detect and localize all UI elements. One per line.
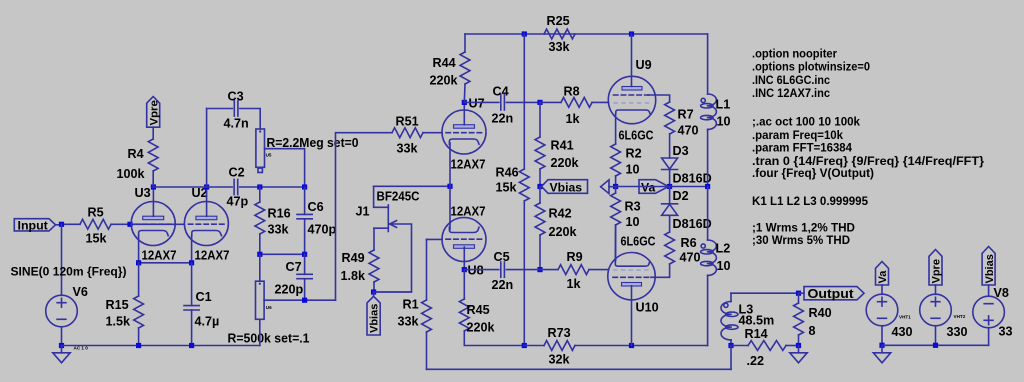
- svg-text:;.ac oct 100 10 100k: ;.ac oct 100 10 100k: [752, 115, 860, 129]
- svg-text:.INC 12AX7.inc: .INC 12AX7.inc: [752, 86, 830, 100]
- spice directives text: [752, 47, 984, 248]
- svg-text:R44: R44: [433, 56, 456, 70]
- junction output: [796, 291, 801, 296]
- wire input row: [62, 223, 81, 225]
- svg-text:R73: R73: [548, 326, 571, 340]
- resistor R40: [794, 293, 804, 345]
- label pot2 us: [266, 305, 272, 310]
- capacitor C5: [464, 262, 540, 277]
- resistor R14: [731, 341, 799, 351]
- svg-text:R3: R3: [625, 200, 641, 214]
- label R14 value: [747, 354, 765, 368]
- junction U3 plate: [151, 184, 156, 189]
- label U7 type: [451, 158, 486, 172]
- svg-text:12AX7: 12AX7: [142, 249, 177, 263]
- svg-text:Va: Va: [877, 270, 889, 284]
- svg-text:R9: R9: [567, 250, 583, 264]
- wire Vpre bottom: [935, 326, 937, 346]
- svg-text:.option noopiter: .option noopiter: [752, 47, 837, 61]
- junction L3 bottom: [728, 343, 733, 348]
- svg-text:R49: R49: [342, 251, 365, 265]
- wire row 186 right: [616, 186, 708, 188]
- svg-text:.22: .22: [747, 354, 765, 368]
- wire R5 to grids: [111, 223, 184, 225]
- resistor R8: [540, 98, 609, 108]
- svg-text:.four {Freq} V(Output): .four {Freq} V(Output): [752, 166, 874, 180]
- label R3 value: [626, 215, 640, 229]
- svg-text:U3: U3: [135, 186, 151, 200]
- junction Va node: [667, 184, 672, 189]
- supply flag Va: [876, 262, 890, 295]
- label Va value: [892, 325, 913, 339]
- label J1 model BF245C: [377, 190, 420, 204]
- wire cathodes row: [139, 262, 192, 264]
- wire U8 grid lead: [427, 238, 443, 240]
- label V8 value: [999, 325, 1013, 339]
- wire U2 plate lead: [206, 187, 208, 216]
- resistor R3: [611, 187, 621, 261]
- svg-text:C7: C7: [286, 260, 302, 274]
- wire supplies rail: [882, 344, 989, 346]
- label C4: [493, 85, 509, 99]
- wire L3 gnd drop: [730, 346, 732, 370]
- svg-text:220p: 220p: [275, 283, 304, 297]
- resistor R4: [148, 139, 158, 187]
- svg-text:.options plotwinsize=0: .options plotwinsize=0: [752, 60, 870, 74]
- label pot1 us: [266, 153, 272, 158]
- wire U9 plate lead: [631, 34, 633, 86]
- resistor R2: [611, 144, 621, 187]
- label R2: [626, 147, 642, 161]
- label pot2 value: [228, 332, 310, 346]
- wire pot2 wiper row: [264, 299, 335, 301]
- svg-text:15k: 15k: [86, 232, 108, 246]
- svg-text:;30 Wrms 5% THD: ;30 Wrms 5% THD: [752, 233, 850, 247]
- pentode U10 (flipped): [608, 253, 655, 300]
- svg-text:R8: R8: [564, 85, 580, 99]
- junction U9 top: [629, 31, 634, 36]
- label R7: [678, 108, 694, 122]
- label R9: [567, 250, 583, 264]
- svg-text:L2: L2: [716, 242, 731, 256]
- label R16: [268, 207, 291, 221]
- label R14: [745, 327, 768, 341]
- label U9: [636, 58, 652, 72]
- svg-text:Vpre: Vpre: [931, 259, 943, 283]
- svg-text:U7: U7: [469, 97, 485, 111]
- junction input: [59, 222, 64, 227]
- resistor R42: [535, 187, 545, 270]
- label R3: [625, 200, 641, 214]
- svg-text:D2: D2: [673, 189, 689, 203]
- label L3 value: [739, 314, 775, 328]
- label C6: [308, 200, 324, 214]
- net flag Output: [799, 286, 865, 301]
- svg-text:220k: 220k: [430, 74, 459, 88]
- svg-text:R45: R45: [467, 303, 490, 317]
- svg-text:C3: C3: [228, 90, 244, 104]
- wire Va bottom: [881, 326, 883, 346]
- label R42 value: [549, 225, 578, 239]
- svg-text:1k: 1k: [566, 112, 581, 126]
- ground at V6: [53, 346, 70, 363]
- label R49: [342, 251, 365, 265]
- junction U8 plate: [462, 267, 467, 272]
- svg-text:R40: R40: [809, 306, 832, 320]
- junction Vbias mid: [537, 184, 542, 189]
- net flag blank at R2R3: [601, 180, 616, 194]
- voltage source V6: [46, 295, 78, 327]
- svg-text:470: 470: [678, 124, 699, 138]
- label R49 value: [341, 269, 367, 283]
- junction Va gnd: [879, 343, 884, 348]
- svg-text:12AX7: 12AX7: [451, 158, 486, 172]
- svg-text:6L6GC: 6L6GC: [621, 235, 656, 249]
- wire V8 bottom: [988, 328, 990, 346]
- svg-text:Vbias: Vbias: [369, 304, 381, 333]
- label R4: [128, 147, 144, 161]
- svg-text:D816D: D816D: [673, 172, 712, 186]
- label R40 value: [809, 324, 816, 338]
- label R41 value: [551, 156, 580, 170]
- capacitor C4: [464, 95, 540, 110]
- label L1 value: [717, 115, 731, 129]
- svg-text:K1 L1 L2 L3 0.999995: K1 L1 L2 L3 0.999995: [752, 194, 868, 208]
- junction pot1 wiper: [302, 184, 307, 189]
- junction R42 bottom: [537, 267, 542, 272]
- label R45 value: [467, 321, 496, 335]
- svg-text:D816D: D816D: [673, 217, 712, 231]
- wire pot2 bottom: [259, 319, 261, 345]
- label VHT2: [954, 314, 966, 319]
- resistor R1: [422, 239, 432, 369]
- label V6 ac: [74, 346, 89, 351]
- voltage source VHT2 Vpre: [920, 294, 952, 326]
- inductor L2: [701, 187, 717, 346]
- junction R15 bottom: [136, 343, 141, 348]
- wire J1 drain row: [374, 185, 450, 187]
- wire row 254: [260, 253, 305, 255]
- svg-text:1.5k: 1.5k: [106, 315, 132, 329]
- label R8 value: [566, 112, 581, 126]
- svg-text:R15: R15: [106, 298, 129, 312]
- capacitor C2: [234, 179, 238, 194]
- svg-text:D3: D3: [673, 144, 689, 158]
- junction C6 bottom: [302, 252, 307, 257]
- svg-text:Input: Input: [18, 219, 48, 233]
- wire U7 plate lead: [463, 102, 465, 124]
- label R16 value: [268, 223, 290, 237]
- label R41: [551, 139, 574, 153]
- potentiometer U6 500k: [256, 281, 265, 319]
- label pot1 value: [267, 136, 359, 150]
- jfet J1 BF245C wiring: [374, 186, 412, 292]
- resistor R16: [255, 187, 265, 254]
- junction V6 gnd: [59, 343, 64, 348]
- junction R46 top: [522, 31, 527, 36]
- svg-text:SINE(0 120m {Freq}): SINE(0 120m {Freq}): [11, 265, 127, 279]
- inductor L1: [701, 34, 717, 187]
- wire D3 bottom: [669, 170, 671, 187]
- wire output row: [731, 292, 799, 294]
- resistor R49: [369, 250, 379, 292]
- wire U3 plate lead: [152, 187, 154, 216]
- wire V6 top: [61, 224, 63, 295]
- junction R2 R3: [613, 184, 618, 189]
- svg-text:VHT1: VHT1: [899, 315, 911, 320]
- capacitor C6: [297, 187, 312, 254]
- voltage source VHT1 Va: [866, 294, 898, 326]
- svg-text:33: 33: [999, 325, 1013, 339]
- svg-text:15k: 15k: [496, 181, 518, 195]
- svg-text:6L6GC: 6L6GC: [619, 129, 654, 143]
- pentode U9: [608, 76, 655, 123]
- svg-text:U10: U10: [636, 301, 659, 315]
- voltage source V8 (flipped): [973, 296, 1005, 328]
- svg-text:VHT2: VHT2: [954, 314, 966, 319]
- label L1: [716, 98, 731, 112]
- net flag Vbias at R49: [367, 292, 381, 335]
- resistor R25: [544, 29, 575, 39]
- label D2 model: [673, 217, 712, 231]
- label C4 value: [492, 112, 514, 126]
- wire U9 screen tap: [648, 95, 670, 102]
- wire feedback riser: [336, 133, 393, 301]
- label C1: [196, 290, 212, 304]
- resistor R51: [392, 128, 442, 138]
- svg-text:Va: Va: [641, 181, 655, 195]
- junction U2 cathode: [189, 260, 194, 265]
- svg-text:Vpre: Vpre: [148, 100, 160, 125]
- svg-text:48.5m: 48.5m: [739, 314, 775, 328]
- net flag Vpre at R4: [147, 97, 161, 140]
- svg-text:Output: Output: [808, 286, 855, 301]
- ground at Va: [873, 345, 890, 363]
- svg-text:R4: R4: [128, 147, 144, 161]
- resistor R15: [134, 263, 144, 346]
- junction R16 top: [257, 184, 262, 189]
- label C7 value: [275, 283, 304, 297]
- wire C3 riser: [207, 109, 233, 188]
- svg-text:220k: 220k: [549, 225, 578, 239]
- net flag Va: [639, 180, 669, 195]
- label J1: [356, 205, 370, 219]
- svg-text:4.7µ: 4.7µ: [195, 315, 220, 329]
- label R25 value: [549, 40, 571, 54]
- label R73 value: [549, 353, 571, 367]
- svg-text:C2: C2: [229, 166, 245, 180]
- label C3: [228, 90, 244, 104]
- wire plate row: [153, 186, 304, 188]
- svg-text:100k: 100k: [117, 167, 146, 181]
- wire U2 cathode lead: [191, 236, 193, 263]
- junction Vpre gnd: [933, 343, 938, 348]
- junction L1 L2: [705, 184, 710, 189]
- label R2 value: [626, 163, 640, 177]
- svg-text:33k: 33k: [549, 40, 571, 54]
- potentiometer U5 2.2Meg: [256, 129, 265, 173]
- label R45: [467, 303, 490, 317]
- ground at R40: [790, 346, 807, 363]
- junction U3 cathode: [136, 260, 141, 265]
- resistor R45: [459, 270, 524, 346]
- wire U10 cathode lead: [614, 225, 616, 263]
- svg-text:R14: R14: [745, 327, 768, 341]
- svg-text:8: 8: [809, 324, 816, 338]
- supply flag Vbias: [982, 247, 996, 297]
- capacitor C3: [234, 101, 238, 116]
- svg-text:Vbias: Vbias: [984, 254, 996, 283]
- label R8: [564, 85, 580, 99]
- label R5: [88, 206, 104, 220]
- resistor R46: [519, 34, 529, 346]
- label U2: [192, 186, 208, 200]
- junction R41 top: [537, 100, 542, 105]
- diode D3: [662, 158, 678, 170]
- wire ground rail left: [62, 345, 260, 347]
- junction U3 grid: [127, 222, 132, 227]
- svg-text:32k: 32k: [549, 353, 571, 367]
- junction C7 bottom: [302, 298, 307, 303]
- phase dot L3: [724, 303, 728, 307]
- svg-text:Vbias: Vbias: [550, 181, 583, 195]
- wire bottom rail: [427, 368, 732, 370]
- wire U9 cathode lead: [615, 114, 617, 145]
- svg-text:10: 10: [626, 215, 640, 229]
- junction R40 bottom: [796, 343, 801, 348]
- label L2 value: [717, 259, 731, 273]
- svg-text:R2: R2: [626, 147, 642, 161]
- resistor R5: [80, 219, 111, 229]
- resistor R44: [460, 34, 470, 102]
- triode U8 (flipped): [442, 218, 486, 262]
- label U3: [135, 186, 151, 200]
- label U3 type: [142, 249, 177, 263]
- supply flag Vpre: [929, 250, 943, 295]
- svg-text:4.7n: 4.7n: [224, 117, 249, 131]
- svg-text:10: 10: [717, 115, 731, 129]
- triode U7: [442, 110, 486, 154]
- label L3: [739, 303, 754, 317]
- svg-text:.INC 6L6GC.inc: .INC 6L6GC.inc: [752, 73, 830, 87]
- svg-text:12AX7: 12AX7: [195, 249, 230, 263]
- label R15: [106, 298, 129, 312]
- svg-text:U6: U6: [266, 305, 272, 310]
- svg-text:1k: 1k: [567, 277, 582, 291]
- label R40: [809, 306, 832, 320]
- phase dot L2: [701, 244, 705, 248]
- label R1: [403, 298, 419, 312]
- svg-text:470: 470: [680, 251, 701, 265]
- resistor R6: [651, 215, 675, 277]
- label C3 value: [224, 117, 249, 131]
- svg-text:R16: R16: [268, 207, 291, 221]
- label R7 value: [678, 124, 699, 138]
- svg-text:R41: R41: [551, 139, 574, 153]
- label R46 value: [496, 181, 518, 195]
- svg-text:BF245C: BF245C: [377, 190, 420, 204]
- capacitor C7: [297, 254, 312, 300]
- svg-text:430: 430: [892, 325, 913, 339]
- label R73: [548, 326, 571, 340]
- resistor R9: [540, 265, 609, 275]
- wire U7 cathode lead: [449, 143, 451, 186]
- junction tail: [447, 184, 452, 189]
- label C2: [229, 166, 245, 180]
- svg-text:R25: R25: [547, 14, 570, 28]
- svg-text:J1: J1: [356, 205, 370, 219]
- svg-text:U8: U8: [468, 264, 484, 278]
- label R51: [396, 115, 419, 129]
- label U9 type: [619, 129, 654, 143]
- junction R49 bottom: [371, 289, 376, 294]
- svg-text:220k: 220k: [551, 156, 580, 170]
- svg-text:33k: 33k: [398, 315, 420, 329]
- svg-text:22n: 22n: [492, 278, 514, 292]
- svg-text:C4: C4: [493, 85, 509, 99]
- resistor R73: [524, 341, 707, 351]
- wire V6 bottom: [61, 327, 63, 346]
- junction U7 plate: [462, 100, 467, 105]
- svg-text:22n: 22n: [492, 112, 514, 126]
- svg-text:R=500k set=.1: R=500k set=.1: [228, 332, 310, 346]
- label R44: [433, 56, 456, 70]
- triode U3: [131, 202, 175, 246]
- wire top row: [465, 33, 708, 35]
- label R6: [681, 236, 697, 250]
- label D3 model: [673, 172, 712, 186]
- svg-text:C6: C6: [308, 200, 324, 214]
- svg-text:R5: R5: [88, 206, 104, 220]
- resistor R41: [535, 102, 545, 186]
- svg-text:33k: 33k: [268, 223, 290, 237]
- wire U8 cathode lead: [449, 186, 451, 229]
- wire pot1 wiper: [265, 149, 305, 187]
- svg-text:R46: R46: [496, 166, 519, 180]
- junction U2 plate: [204, 184, 209, 189]
- label V8: [994, 286, 1009, 300]
- svg-text:L1: L1: [716, 98, 731, 112]
- phase dot L1: [701, 98, 705, 102]
- svg-text:470p: 470p: [308, 223, 337, 237]
- label D2: [673, 189, 689, 203]
- svg-text:U9: U9: [636, 58, 652, 72]
- label R25: [547, 14, 570, 28]
- label C5 value: [492, 278, 514, 292]
- label R4 value: [117, 167, 146, 181]
- label R9 value: [567, 277, 582, 291]
- label U8 type: [451, 205, 486, 219]
- svg-text:R1: R1: [403, 298, 419, 312]
- svg-text:330: 330: [947, 325, 968, 339]
- inductor L3: [721, 293, 738, 345]
- label C6 value: [308, 223, 337, 237]
- label C7: [286, 260, 302, 274]
- label L2: [716, 242, 731, 256]
- svg-text:R7: R7: [678, 108, 694, 122]
- resistor R7: [665, 102, 675, 158]
- wire J1 gate row: [374, 291, 412, 293]
- label R44 value: [430, 74, 459, 88]
- net flag Input: [14, 219, 61, 233]
- svg-text:10: 10: [717, 259, 731, 273]
- label R15 value: [106, 315, 132, 329]
- wire C3 to pot: [240, 109, 260, 130]
- junction mid rail left: [522, 343, 527, 348]
- label Vpre value: [947, 325, 968, 339]
- junction mid rail right: [629, 343, 634, 348]
- wire U3 cathode lead: [138, 236, 140, 263]
